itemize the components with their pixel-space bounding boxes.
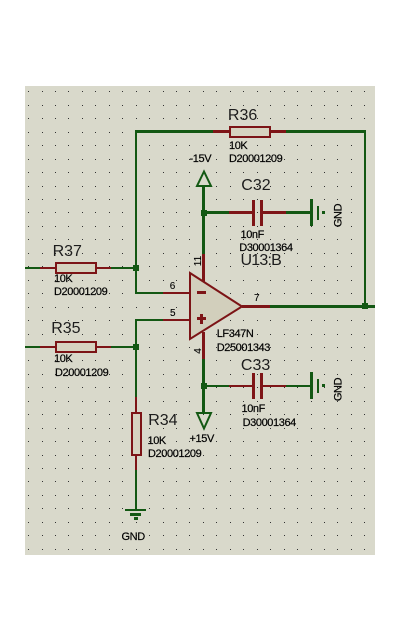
capacitor C33 plates (252, 373, 255, 399)
resistor R36 label (228, 108, 257, 124)
pin 4 stub (vertical red) (202, 332, 204, 359)
resistor R37 body (55, 262, 97, 274)
resistor R34 leads (135, 397, 137, 412)
op-amp plus input mark (197, 317, 206, 320)
wire: junction B down to R34 (135, 346, 137, 398)
resistor R35 code D20001209 (55, 368, 108, 379)
op-amp U13:B (185, 268, 250, 346)
resistor R34 value 10K (148, 436, 166, 447)
wire: to pin 5 (135, 319, 163, 321)
resistor R37 label (53, 244, 82, 260)
wire: right vertical from top to output (364, 130, 366, 306)
pin 11 number (rotated) (194, 251, 204, 271)
power symbol -15V (up arrow) (194, 168, 214, 190)
capacitor C32 plates (252, 200, 255, 226)
resistor R36 body (229, 126, 271, 138)
wire: R37 left stub (25, 267, 40, 269)
junction node B (R35 / R34 / pin5) (133, 344, 139, 350)
capacitor C33 leads (229, 385, 253, 387)
wire: pin 11 up to power (202, 186, 204, 254)
capacitor C32 code D30001364 (239, 243, 292, 254)
ground label GND (122, 532, 145, 543)
resistor R35 label (51, 321, 80, 337)
ground label GND (rotated) (333, 374, 344, 404)
junction node D (pin4 / C33) (201, 383, 207, 389)
pin 11 stub (vertical red) (202, 254, 204, 283)
capacitor C33 value 10nF (242, 404, 265, 415)
power label -15V (190, 154, 212, 165)
wire: R34 down to ground (135, 470, 137, 510)
junction node OUT (362, 303, 368, 309)
ground label GND (rotated) (333, 201, 344, 231)
wire: to pin 6 (135, 292, 163, 294)
wire: junction A down (135, 267, 137, 294)
ground symbol (right of C32) (310, 199, 313, 226)
wire: output to right edge (270, 305, 375, 307)
wire: pin 4 down to power (202, 359, 204, 414)
wire: C32 left (202, 211, 229, 213)
pin 7 number (254, 294, 260, 304)
resistor R36 value 10K (229, 141, 247, 152)
op-amp minus input mark (197, 291, 206, 294)
wire: C33 left (202, 385, 229, 387)
capacitor C32 label (241, 178, 270, 194)
wire: feedback left vertical (135, 130, 137, 268)
power label +15V (190, 434, 214, 445)
op-amp part number LF347N (217, 329, 254, 340)
wire: R35 to junction B (111, 346, 137, 348)
capacitor C32 leads (229, 211, 253, 213)
resistor R36 leads (213, 130, 230, 132)
op-amp code D25001343 (217, 343, 270, 354)
capacitor C33 label (241, 358, 270, 374)
wire: R35 left stub (25, 346, 40, 348)
resistor R34 code D20001209 (148, 449, 201, 460)
wire: R37 to feedback junction (111, 267, 137, 269)
pin 5 number (170, 309, 176, 319)
power symbol +15V (down arrow) (194, 408, 214, 432)
wire: C33 to ground (286, 385, 311, 387)
wire: C32 to ground (286, 211, 311, 213)
pin 6 number (170, 282, 176, 292)
resistor R34 label (148, 413, 177, 429)
resistor R35 value 10K (54, 354, 72, 365)
pin 7 stub (242, 305, 270, 307)
wire: top feedback horizontal (135, 130, 366, 132)
resistor R35 body (55, 341, 97, 353)
ground symbol (bottom) (125, 509, 146, 512)
pin 4 number (rotated) (194, 341, 204, 361)
junction node C (pin11 / C32) (201, 210, 207, 216)
resistor R37 leads (40, 267, 55, 269)
resistor R36 code D20001209 (229, 154, 282, 165)
capacitor C32 value 10nF (241, 230, 264, 241)
junction node A (feedback / R37) (133, 265, 139, 271)
resistor R34 body (vertical) (131, 412, 142, 456)
pin 5 stub (163, 319, 190, 321)
capacitor C33 code D30001364 (243, 418, 296, 429)
op-amp reference U13:B (241, 253, 281, 269)
resistor R37 code D20001209 (54, 287, 107, 298)
ground symbol (right of C33) (310, 372, 313, 399)
resistor R37 value 10K (54, 274, 72, 285)
wire: junction B up (135, 319, 137, 348)
pin 6 stub (163, 292, 190, 294)
resistor R35 leads (40, 346, 55, 348)
